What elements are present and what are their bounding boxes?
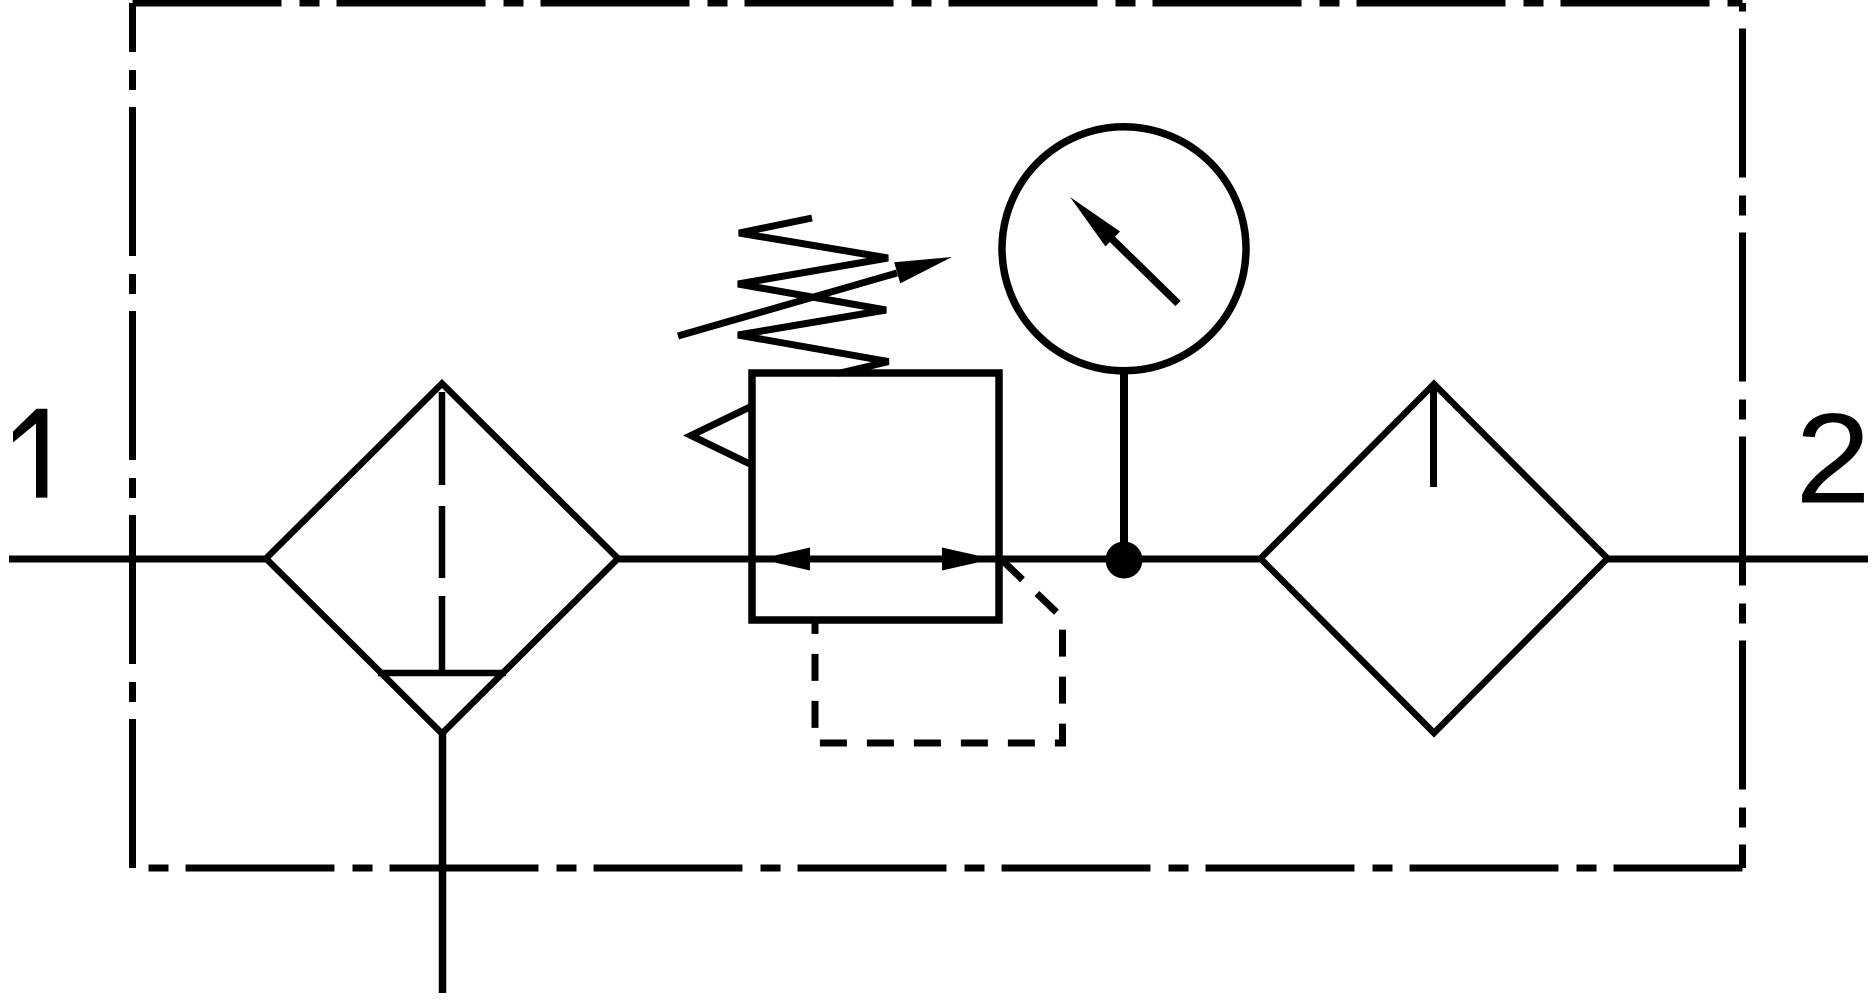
gauge needle shaft [1111,238,1178,304]
adjustment arrow head [894,257,952,283]
node: gauge junction dot [1106,542,1143,579]
lubricator L (diamond) [1261,384,1608,733]
wire: regulator to lubricator [999,556,1261,563]
relief vent symbol [691,406,752,465]
filter F (diamond) [266,384,618,734]
enclosure border left (dash-dot) [129,3,136,868]
enclosure border top (dash-dot) [133,0,1743,7]
water separator chord [378,670,506,677]
wire: lubricator to port 2 [1608,556,1869,563]
adjustment arrow shaft [678,273,897,336]
spring (adjustment, zigzag) [738,218,889,374]
enclosure border right (dash-dot) [1739,3,1746,868]
regulator flow path with double arrow [752,556,999,563]
gauge stem [1120,372,1128,560]
pilot line (dashed feedback loop) [815,561,1063,743]
port label 1 [13,409,47,498]
regulator body (square) [752,373,999,620]
drain line [439,733,447,993]
enclosure border bottom (dash-dot) [133,865,1743,872]
filter element (dashed centre line) [439,392,446,672]
svg-text:2: 2 [1795,387,1870,530]
pressure gauge (circle) [1002,127,1246,371]
wire: filter to regulator [618,556,752,563]
gauge needle head [1070,197,1120,247]
wire: inlet pipe port 1 to filter [9,556,266,563]
lubricator drip line [1430,384,1437,487]
